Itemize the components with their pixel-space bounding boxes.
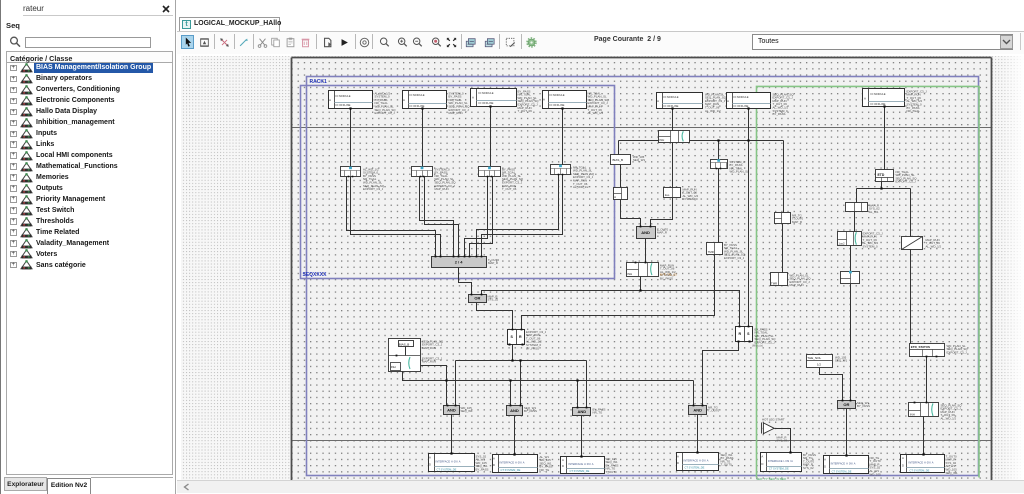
svg-text:D: D: [824, 464, 826, 468]
svg-text:D: D: [493, 463, 495, 467]
svg-text:A: A: [429, 456, 431, 460]
svg-text:IO OFFLINE: IO OFFLINE: [479, 101, 494, 105]
svg-text:A: A: [677, 455, 679, 459]
svg-text:A: A: [614, 195, 616, 199]
svg-text:AND: AND: [693, 408, 702, 413]
svg-text:AL_WD_1/2: AL_WD_1/2: [926, 244, 942, 248]
svg-text:INTERFACE I-I 09 I A: INTERFACE I-I 09 I A: [684, 458, 709, 462]
svg-text:OR: OR: [474, 296, 480, 301]
svg-text:EXPORT_C3_J: EXPORT_C3_J: [724, 256, 745, 260]
svg-text:D: D: [677, 461, 679, 465]
svg-text:SEQ_W1: SEQ_W1: [946, 471, 958, 475]
svg-text:A: A: [761, 455, 763, 459]
svg-text:A: A: [472, 95, 474, 99]
svg-text:R: R: [519, 335, 522, 339]
svg-text:AND: AND: [578, 409, 587, 414]
svg-text:SYS_02: SYS_02: [803, 466, 814, 470]
svg-text:T_OUT0: T_OUT0: [708, 409, 719, 413]
svg-text:D: D: [429, 462, 431, 466]
svg-text:IO OFFLINE: IO OFFLINE: [336, 103, 351, 107]
svg-text:INH: INH: [910, 413, 915, 417]
svg-text:SYSTEM_0: SYSTEM_0: [863, 245, 878, 249]
svg-text:RACK1: RACK1: [310, 79, 327, 85]
svg-text:D: D: [902, 464, 904, 468]
svg-text:2oo: 2oo: [665, 193, 670, 197]
svg-text:CT SYSTEM_DE: CT SYSTEM_DE: [769, 467, 789, 471]
svg-text:INTERFACE I-I 09 I A: INTERFACE I-I 09 I A: [436, 460, 461, 464]
svg-text:A: A: [493, 456, 495, 460]
svg-text:BYP_TAL_03: BYP_TAL_03: [660, 273, 677, 277]
svg-text:IO MODULE: IO MODULE: [871, 92, 886, 96]
svg-text:SEQXXXX: SEQXXXX: [303, 272, 328, 278]
svg-text:SEQ_W1: SEQ_W1: [461, 409, 473, 413]
svg-text:BY_PASS: BY_PASS: [526, 346, 539, 350]
svg-text:D: D: [562, 464, 564, 468]
svg-text:A: A: [562, 458, 564, 462]
svg-text:INTERFACE I-I 09 I A: INTERFACE I-I 09 I A: [768, 459, 793, 463]
svg-text:SEQ_W1: SEQ_W1: [633, 158, 645, 162]
svg-text:TMR: TMR: [771, 282, 777, 286]
svg-text:T_OUT_06: T_OUT_06: [518, 109, 533, 113]
svg-text:IO OFFLINE: IO OFFLINE: [664, 104, 679, 108]
svg-text:IO MODULE: IO MODULE: [664, 95, 679, 99]
svg-text:CT SYSTEM_DE: CT SYSTEM_DE: [685, 466, 705, 470]
svg-text:AL_WD_1/2: AL_WD_1/2: [588, 111, 604, 115]
svg-text:ETD: ETD: [878, 173, 885, 177]
svg-text:MAP_RUN: MAP_RUN: [449, 111, 463, 115]
svg-text:INTERFACE I-I 09 I A: INTERFACE I-I 09 I A: [500, 460, 525, 464]
svg-text:IO OFFLINE: IO OFFLINE: [871, 102, 886, 106]
svg-text:HOT LEG START: HOT LEG START: [762, 418, 785, 422]
svg-text:INTERFACE I-I 09 I A: INTERFACE I-I 09 I A: [831, 462, 856, 466]
svg-text:CT SYSTEM_DE: CT SYSTEM_DE: [570, 469, 590, 473]
svg-text:IO MODULE: IO MODULE: [734, 95, 749, 99]
svg-text:INH: INH: [660, 138, 665, 142]
svg-text:IO MODULE: IO MODULE: [410, 93, 425, 97]
svg-text:NR_TGAL: NR_TGAL: [907, 109, 921, 113]
svg-text:R: R: [738, 332, 741, 336]
svg-text:EXPORT_C3_J: EXPORT_C3_J: [375, 111, 396, 115]
svg-text:T_OUT0: T_OUT0: [721, 463, 732, 467]
svg-text:SYS_02: SYS_02: [777, 439, 788, 443]
svg-text:A: A: [902, 456, 904, 460]
svg-text:AND: AND: [447, 407, 456, 412]
svg-text:T_OUT_06: T_OUT_06: [502, 187, 517, 191]
svg-text:TMR: TMR: [708, 250, 714, 254]
svg-text:AND: AND: [510, 408, 519, 413]
svg-text:SYSTEM_0: SYSTEM_0: [683, 197, 698, 201]
svg-text:AL_WD_1/2: AL_WD_1/2: [573, 185, 589, 189]
svg-text:WD_105: WD_105: [870, 472, 882, 476]
svg-text:CT SYSTEM_DE: CT SYSTEM_DE: [910, 468, 930, 472]
svg-text:IO MODULE: IO MODULE: [479, 91, 494, 95]
svg-text:BY_PASS: BY_PASS: [524, 409, 537, 413]
svg-text:EXPORT_C3_J: EXPORT_C3_J: [947, 350, 968, 354]
svg-text:AL_WD_1/2: AL_WD_1/2: [705, 109, 721, 113]
svg-text:MAP_R: MAP_R: [488, 261, 498, 265]
svg-text:AL_WD_1/2: AL_WD_1/2: [941, 417, 957, 421]
svg-text:IO MODULE: IO MODULE: [550, 93, 565, 97]
svg-text:T_OUT0: T_OUT0: [606, 470, 617, 474]
svg-text:IO OFFLINE: IO OFFLINE: [550, 103, 565, 107]
svg-text:AL_W1: AL_W1: [869, 210, 879, 214]
svg-text:BY_PASS: BY_PASS: [857, 404, 870, 408]
svg-text:CT SYSTEM_DE: CT SYSTEM_DE: [832, 469, 852, 473]
svg-text:(Mfc(y)x): (Mfc(y)x): [752, 344, 763, 348]
svg-text:BY_PASS: BY_PASS: [773, 112, 786, 116]
svg-text:1oo2: 1oo2: [838, 241, 845, 245]
svg-text:BY_PASS: BY_PASS: [660, 277, 673, 281]
svg-text:SEQ_W1: SEQ_W1: [835, 359, 847, 363]
svg-text:INH: INH: [627, 272, 632, 276]
svg-text:IO OFFLINE: IO OFFLINE: [734, 104, 749, 108]
svg-text:OR: OR: [843, 402, 849, 407]
svg-text:A: A: [403, 98, 405, 102]
svg-text:A: A: [824, 458, 826, 462]
svg-text:WD_PLAN_SL: WD_PLAN_SL: [730, 170, 750, 174]
svg-text:MAP_RUN: MAP_RUN: [422, 346, 436, 350]
svg-text:IO MODULE: IO MODULE: [336, 94, 351, 98]
svg-text:D: D: [761, 462, 763, 466]
svg-text:2 / 4: 2 / 4: [455, 260, 464, 265]
svg-text:MAP_RUN: MAP_RUN: [435, 187, 449, 191]
svg-text:MAP_R: MAP_R: [657, 231, 667, 235]
svg-text:BIAS_B: BIAS_B: [613, 158, 624, 162]
svg-text:MAP_RUN: MAP_RUN: [790, 283, 804, 287]
svg-text:ETD_STATUS: ETD_STATUS: [911, 345, 930, 349]
svg-text:A: A: [657, 99, 659, 103]
svg-text:NR_TG: NR_TG: [540, 468, 551, 472]
svg-text:EXPORT_C3_J: EXPORT_C3_J: [896, 180, 917, 184]
svg-text:BIAS_B: BIAS_B: [399, 342, 410, 346]
svg-text:INH: INH: [391, 365, 396, 369]
svg-text:THE_NOL: THE_NOL: [807, 356, 821, 360]
svg-text:CT SYSTEM_DE: CT SYSTEM_DE: [437, 467, 457, 471]
svg-text:A: A: [864, 96, 866, 100]
svg-text:1/2: 1/2: [817, 363, 821, 367]
svg-text:EXPORT_C3_J: EXPORT_C3_J: [363, 187, 384, 191]
svg-text:MAP_R: MAP_R: [792, 220, 802, 224]
svg-text:NR_TG: NR_TG: [593, 411, 604, 415]
svg-text:BY_PASS: BY_PASS: [476, 468, 489, 472]
svg-text:A: A: [543, 97, 545, 101]
svg-text:A: A: [727, 99, 729, 103]
svg-text:AND: AND: [641, 230, 650, 235]
svg-text:INTERFACE I-I 09 I A: INTERFACE I-I 09 I A: [569, 462, 594, 466]
svg-text:CT SYSTEM_DE: CT SYSTEM_DE: [501, 468, 521, 472]
svg-text:SYS_02: SYS_02: [488, 298, 499, 302]
svg-text:A: A: [329, 98, 331, 102]
svg-text:INTERFACE I-I 09 I A: INTERFACE I-I 09 I A: [909, 461, 934, 465]
svg-text:MAP_RUN: MAP_RUN: [422, 360, 436, 364]
